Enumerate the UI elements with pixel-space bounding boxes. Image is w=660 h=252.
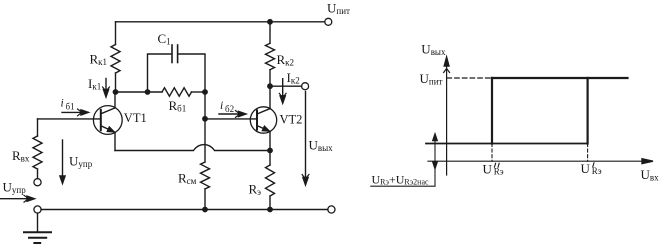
svg-text:VT2: VT2: [280, 112, 303, 126]
node collector VT2 junction: [267, 83, 273, 89]
svg-text:Uпит: Uпит: [327, 1, 350, 17]
svg-text:Uупр: Uупр: [3, 180, 27, 196]
svg-text:Uвых: Uвых: [309, 137, 334, 153]
node Rсм ground junction: [202, 207, 208, 213]
resistor Rк2: [266, 43, 275, 69]
wire C1 left branch: [148, 54, 171, 92]
svg-text:U: U: [581, 161, 591, 176]
svg-text:URэ+URэ2нас: URэ+URэ2нас: [372, 173, 429, 187]
terminal bottom right: [328, 206, 335, 213]
hysteresis bottom line: [426, 143, 588, 145]
wire emitter VT2: [269, 131, 271, 150]
signal arrow Uупр input: [1, 198, 29, 200]
svg-text:Rсм: Rсм: [178, 170, 197, 186]
svg-text:Uвых: Uвых: [421, 42, 446, 58]
wire output: [270, 85, 302, 87]
svg-text:Rэ: Rэ: [494, 167, 504, 177]
svg-text:Uвх: Uвх: [641, 167, 660, 183]
wire node to C1/Rб1 branch: [116, 91, 148, 93]
wire collector VT2: [269, 86, 271, 108]
wire collector VT1: [114, 92, 116, 108]
svg-text:VT1: VT1: [124, 111, 147, 125]
node Rэ ground junction: [267, 207, 273, 213]
svg-text:U: U: [483, 162, 493, 177]
resistor Rэ: [269, 151, 271, 166]
node top rail Rк2 junction: [267, 19, 273, 25]
wire base VT2: [205, 118, 257, 120]
svg-text:Uпит: Uпит: [420, 71, 443, 87]
current arrow Iк1: [105, 79, 107, 92]
wire base branch VT2 vertical: [204, 92, 206, 162]
terminal output: [302, 83, 309, 90]
terminal Rвх input: [34, 179, 41, 186]
wire Rк1 to collector node: [115, 73, 117, 92]
wire rail to Rк2: [269, 22, 271, 44]
svg-text:Rк2: Rк2: [277, 52, 295, 68]
wire rail to Rк1: [115, 22, 117, 45]
hysteresis top line: [492, 77, 628, 79]
dashed drop right U′Rэ: [587, 144, 589, 162]
svg-text:C1: C1: [158, 31, 171, 47]
wire top supply rail: [116, 21, 325, 23]
svg-text:i: i: [220, 100, 223, 112]
hysteresis left vertical: [491, 78, 493, 144]
wire base VT1: [38, 118, 101, 120]
svg-text:Uупр: Uупр: [69, 154, 93, 170]
wire bottom rail: [41, 209, 328, 211]
dashed drop left U″Rэ: [491, 144, 493, 162]
node Rб1 right junction: [202, 89, 208, 95]
wire emitter VT1: [114, 132, 116, 150]
svg-text:б2: б2: [225, 104, 234, 114]
svg-text:Rк1: Rк1: [90, 52, 108, 68]
capacitor C1: [171, 45, 173, 63]
svg-text:Iк1: Iк1: [88, 76, 101, 92]
resistor Rвх branch: [37, 119, 39, 136]
svg-text:i: i: [61, 98, 64, 110]
transistor VT2: [250, 107, 276, 133]
node base VT2 junction: [202, 116, 208, 122]
transistor VT1: [93, 106, 122, 135]
terminal ground left: [34, 206, 41, 213]
dimension arrow low level: [434, 140, 436, 186]
resistor Rсм: [201, 162, 210, 189]
axis Y Uвых: [446, 63, 448, 175]
node C1 left junction: [145, 89, 151, 95]
dashed level Uпит: [447, 77, 492, 79]
wire C1 right branch: [179, 54, 205, 92]
node collector VT1 junction: [113, 89, 119, 95]
svg-text:Rб1: Rб1: [169, 98, 187, 114]
current arrow iб1: [62, 111, 81, 113]
svg-text:Rвх: Rвх: [12, 148, 30, 164]
hysteresis right vertical: [586, 78, 588, 144]
terminal Uпит: [325, 18, 332, 25]
current arrow iб2: [219, 113, 239, 115]
svg-text:Rэ: Rэ: [592, 166, 602, 176]
resistor Rб1: [148, 91, 163, 93]
svg-text:б1: б1: [66, 102, 75, 112]
current arrow Iк2: [282, 79, 284, 98]
voltage arrow Uупр vertical: [62, 140, 64, 177]
svg-text:Rэ: Rэ: [249, 181, 262, 197]
resistor Rк1: [111, 45, 120, 74]
ground: [24, 213, 51, 243]
axis X Uвх: [428, 160, 645, 162]
resistor Rвх: [33, 136, 42, 169]
node emitter VT2 junction: [267, 148, 273, 154]
svg-text:Iк2: Iк2: [287, 70, 300, 86]
voltage arrow Uвых: [305, 92, 307, 179]
wire emitter coupling with hop: [115, 145, 270, 151]
